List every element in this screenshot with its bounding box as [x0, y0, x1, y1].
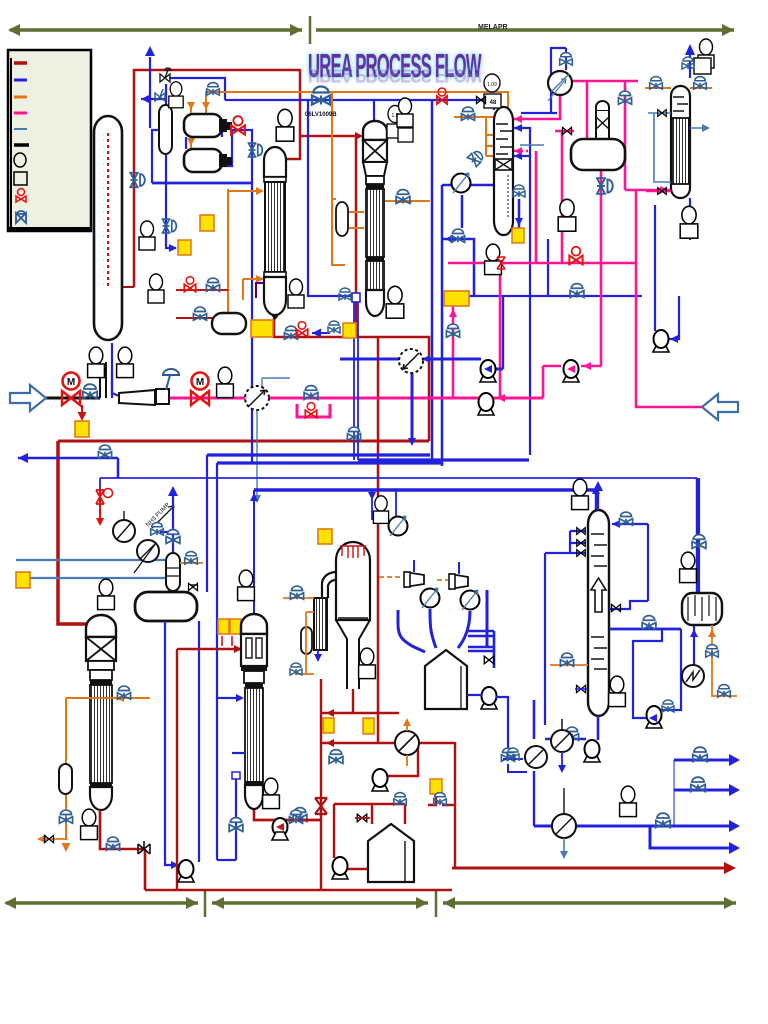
compressor circles vacuum — [421, 588, 440, 608]
valve red X on blue y100 — [437, 88, 447, 104]
valve X desorber lower stub — [577, 685, 586, 692]
valve X desorber right — [612, 604, 621, 611]
wire blue bottom manifold — [534, 760, 736, 848]
wire blue drum outlet — [165, 621, 199, 865]
valve X condenser — [484, 656, 494, 664]
valve red at tanks — [231, 116, 245, 134]
vessel column A (MP decomposer) — [86, 615, 116, 810]
yellow box below M1 — [75, 421, 89, 437]
valve blue on y296 — [570, 284, 584, 298]
valve blue below tanks — [249, 143, 263, 157]
vacuum feed person — [372, 491, 396, 520]
valve blue on V101 red line — [130, 173, 144, 187]
HX circle B on thick line — [551, 719, 573, 752]
yellow boxes above col B — [218, 619, 229, 634]
person icons bottom-left — [98, 579, 115, 609]
pump desorber bottom — [584, 740, 600, 762]
valve blue actuated below evap — [329, 750, 343, 764]
wire blue col B side — [217, 698, 245, 860]
valve blue orange line topleft — [207, 83, 220, 96]
red valve left cluster — [184, 277, 195, 292]
valve blue on red y441 — [347, 427, 360, 440]
vessel desorber — [588, 510, 609, 716]
valve bold red X — [315, 798, 327, 814]
person below MP drum — [558, 199, 576, 231]
vessel column B (LP decomposer) — [241, 614, 267, 809]
person near y248 — [148, 274, 164, 303]
blue mushroom actuator — [163, 369, 179, 390]
wire blue right drum feed — [694, 478, 699, 687]
instrument 1.09/48 at col48 top — [484, 74, 501, 108]
valve blue below yellow — [446, 324, 459, 337]
outlet hollow arrow right (magenta line) — [702, 394, 738, 420]
valve orange on stripper — [396, 190, 410, 204]
valve blue on x166 — [163, 219, 177, 233]
wire red col B outlet — [254, 810, 321, 820]
valve X left of col48 — [477, 96, 486, 103]
wire blue desorber right side — [609, 524, 687, 718]
valve M2 motor valve — [191, 373, 209, 406]
compressor magenta MP — [548, 71, 572, 101]
HX circle A bottom — [525, 746, 547, 768]
wire magenta MP section — [448, 81, 709, 407]
vessel HP stripper — [363, 121, 387, 316]
vessel vacuum condenser hopper — [425, 650, 467, 709]
vessel small drum left of C1 — [212, 313, 246, 334]
wire orange condenser stubs — [645, 87, 712, 89]
valve blue on orange vert — [706, 645, 719, 658]
small blue box on stripper bottom left — [352, 293, 360, 302]
HX circle C on y826 — [552, 788, 576, 838]
person desorber top — [572, 479, 589, 509]
wire blue desorber top — [545, 484, 648, 725]
person below col48 — [485, 244, 502, 274]
vessel reflux drum right — [682, 593, 722, 625]
wire magenta condenser feed — [646, 190, 671, 192]
vessel bullet tank T2 — [184, 149, 232, 172]
wire orange col A side — [66, 698, 150, 840]
pump tank feed red — [332, 857, 348, 879]
wire red evaporator bottom — [253, 679, 733, 890]
vessel V101 tall capsule — [94, 116, 122, 340]
valve red col A outlet — [106, 837, 119, 850]
valve M1 motor valve — [62, 373, 80, 406]
valve red actuated on col B outlet — [293, 808, 307, 822]
wire red to col B top — [177, 636, 240, 890]
vessel V2 small capsule — [159, 105, 172, 154]
ejector 1 — [379, 572, 424, 587]
vessel col48 MP decomposer — [494, 107, 513, 235]
wire blue dashed-circle2 line — [340, 302, 503, 460]
wire orange desorber left — [550, 664, 588, 666]
valve blue col B bottom — [229, 818, 243, 832]
valve red X NH3 — [96, 489, 113, 505]
person icon top capsule — [169, 82, 183, 108]
vessel bullet tank T1 — [184, 114, 232, 137]
wire blue col48 right nest — [308, 100, 642, 455]
svg-text:M: M — [196, 377, 204, 388]
purple elbow C1 — [256, 283, 265, 298]
valve blue below MP drum — [597, 178, 613, 194]
title text — [308, 50, 481, 84]
valve blue above drum — [692, 535, 706, 549]
instrument 1.6 at stripper top — [387, 106, 404, 139]
person below capsule V1 left — [88, 347, 105, 377]
yellow box x166 — [178, 240, 191, 255]
valve blue pump outlet — [662, 700, 674, 712]
person on y826 — [620, 786, 637, 816]
HX circle right — [682, 665, 704, 687]
valve orange col A — [117, 686, 130, 699]
valve blue above receiver — [166, 530, 180, 544]
wire blue desorber bottom — [534, 700, 598, 740]
valve X black on red — [138, 841, 150, 854]
valve red on bypass loop — [305, 403, 316, 418]
top dimension line left segment — [8, 16, 734, 44]
NH3 pump circles — [113, 511, 135, 542]
vessel orange capsule at stripper — [336, 202, 348, 236]
valve blue on y458 — [98, 445, 111, 458]
wire blue vacuum curves — [398, 560, 487, 652]
wire blue vacuum pump out — [467, 296, 508, 752]
wire orange evap — [283, 598, 314, 674]
instrument left of col48 — [397, 98, 413, 127]
orange bottom left branch — [42, 838, 66, 840]
valve red on magenta y263 — [569, 247, 582, 265]
vessel MP drum + column — [571, 101, 625, 170]
wire red main loop top — [134, 70, 360, 287]
valve blue x519 — [513, 185, 525, 197]
vessel MP condenser right — [671, 86, 690, 198]
valve X on drum top stub — [190, 584, 197, 586]
yellow boxes red section — [323, 718, 334, 733]
wire steelblue condenser lines — [520, 113, 708, 182]
valve red X on y263 — [497, 257, 505, 269]
red valves at C1 bottom line — [284, 326, 297, 339]
person above drum2 — [238, 570, 255, 600]
wire steelblue mixer lines — [257, 378, 290, 500]
pump right of desorber — [646, 706, 662, 728]
yellow boxes at stripper bottom — [343, 323, 356, 338]
compressor vacuum feed — [389, 516, 408, 536]
valve blue top right pair — [682, 57, 694, 69]
mixer dashed circle 2 — [399, 349, 423, 373]
valve blue after M1 — [83, 384, 97, 398]
red drain to yellow box — [81, 405, 83, 418]
valves on tank top red line — [394, 793, 407, 806]
wire blue V2 top — [141, 57, 494, 248]
person below C1 right — [288, 279, 304, 308]
svg-text:1.09: 1.09 — [487, 82, 497, 88]
valves orange right condenser — [650, 77, 663, 90]
valve blue above compressor — [467, 149, 485, 167]
wire blue V101 outlet — [111, 343, 113, 398]
valve blue on magenta at bypass — [304, 386, 318, 400]
valve blue on y739 — [565, 727, 578, 740]
evaporator circulation HX — [314, 572, 336, 662]
vessel small capsule beside evap — [301, 627, 312, 654]
legend box — [8, 50, 91, 231]
yellow box left — [16, 572, 30, 588]
big yellow box below C1 — [251, 320, 273, 337]
person top right — [698, 39, 714, 68]
valve orange — [718, 685, 731, 698]
wire orange right drum — [712, 625, 737, 696]
pump vacuum — [481, 687, 497, 709]
valve orange below capsule — [59, 810, 72, 823]
wire red stripper bottom — [58, 138, 429, 743]
valve blue below — [501, 748, 514, 761]
blue arrow left at C1 bottom — [312, 332, 330, 334]
ejector 2 — [437, 574, 468, 589]
person below right condenser — [680, 206, 698, 238]
wire black inlet line — [45, 397, 100, 400]
valve blue y239 — [451, 229, 464, 242]
vessel flash drum (horizontal) — [135, 592, 197, 621]
valve blue left of X — [289, 810, 302, 823]
valve blue on y628 — [642, 616, 656, 630]
valve 06LV1009B — [312, 87, 330, 105]
blue arrowheads top — [145, 46, 155, 56]
wire magenta main feed line — [170, 398, 543, 417]
wire blue HP stripper right — [432, 100, 519, 466]
wire red col A bottom — [100, 810, 452, 890]
wire blue right condenser — [521, 46, 690, 339]
wire blue nest horizontals — [18, 455, 697, 860]
svg-text:M: M — [67, 377, 75, 388]
valve blue desorber top right — [619, 512, 632, 525]
HX circle on red line — [395, 731, 419, 755]
valves blue on right arrows — [693, 747, 707, 761]
yellow box col48 — [512, 228, 524, 243]
vessel small capsule left — [59, 764, 72, 794]
red arrow into HP stripper — [355, 132, 363, 140]
pump evap red — [372, 769, 388, 791]
vessel evaporator — [336, 542, 370, 689]
valve blue gate left — [155, 89, 165, 101]
person desorber bottom right — [609, 676, 626, 706]
person right of stripper bottom — [386, 286, 404, 318]
valve X on magenta stub — [563, 127, 572, 134]
pumps bottom — [178, 860, 194, 882]
valve blue on orange evap line — [290, 586, 303, 599]
wire orange top manifold — [191, 92, 511, 265]
compressor blue at stripper — [452, 173, 471, 193]
wire red dotted V101 — [108, 286, 134, 288]
yellow box evap top — [318, 529, 332, 544]
arrow up into drum — [693, 632, 695, 663]
mixer dashed circle on magenta line — [245, 386, 269, 410]
reducer cone — [119, 390, 155, 405]
valve X on tank line — [357, 814, 367, 822]
person at M2 — [217, 367, 234, 397]
svg-text:06LV1009B: 06LV1009B — [305, 112, 337, 118]
wire steelblue left pair — [16, 560, 166, 578]
wire blue NH3 receiver — [160, 489, 173, 560]
wire red left small lines — [176, 290, 228, 318]
person top of C1 — [276, 109, 294, 141]
vessel C1 carbamate condenser — [264, 147, 286, 320]
pumps center — [480, 360, 496, 382]
valve X steel stub — [658, 110, 667, 117]
wire orange stripper side — [228, 189, 262, 314]
valve orange right of receiver — [180, 562, 203, 564]
wire blue bullet tanks manifold — [152, 130, 252, 462]
wire blue condenser horizontals — [468, 631, 494, 668]
vessel NH3 receiver capsule — [166, 553, 180, 591]
svg-text:48: 48 — [490, 100, 497, 106]
wire red NH3 feed valve — [99, 490, 101, 523]
person above right drum — [680, 552, 697, 582]
person x166 line — [139, 221, 155, 250]
yellow box stripper left — [200, 215, 214, 231]
vessel urea tank (house) — [368, 824, 414, 882]
valve blue above compressor MP — [560, 53, 573, 66]
valve blue on orange y117 — [461, 107, 474, 120]
inlet hollow arrow left — [10, 385, 46, 411]
valves X desorber top stubs — [577, 528, 586, 535]
bottom dimension line — [4, 889, 736, 917]
valve black gate top — [160, 68, 171, 82]
svg-text:MELAPR: MELAPR — [478, 24, 508, 31]
person below capsule V1 right — [117, 347, 134, 377]
NH3 PUMP arrow and text — [152, 506, 174, 528]
